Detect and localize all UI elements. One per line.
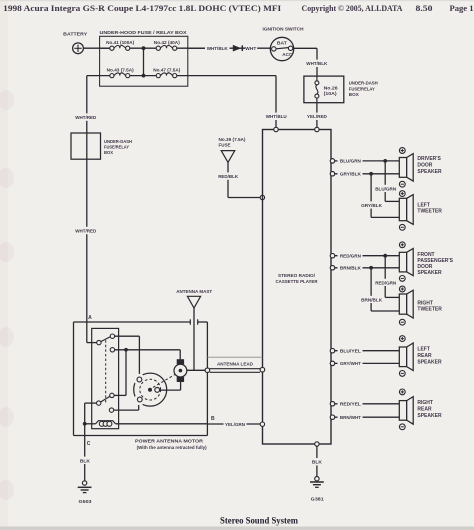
svg-text:SPEAKER: SPEAKER [417,413,442,419]
wire motor to antenna lead node [187,369,208,371]
svg-text:BAT: BAT [277,41,287,46]
wire battery to under-hood fuse box [83,47,109,49]
svg-text:TWEETER: TWEETER [417,209,442,215]
wire motor lower brush to cam wiper [160,382,181,390]
svg-text:DOOR: DOOR [417,163,432,169]
svg-text:1998 Acura Integra GS-R Coupe: 1998 Acura Integra GS-R Coupe L4-1797cc … [3,3,282,13]
svg-text:IGNITION SWITCH: IGNITION SWITCH [263,27,305,32]
svg-text:RED/GRN: RED/GRN [340,254,362,260]
battery [63,32,88,54]
svg-text:ANTENNA MAST: ANTENNA MAST [176,289,212,294]
svg-text:ANTENNA LEAD: ANTENNA LEAD [217,362,254,367]
wire WHT/RED left column [75,76,98,322]
svg-text:BLK: BLK [80,458,91,463]
speaker front passenger's door speaker: cone [399,249,413,276]
svg-text:GRY/BLK: GRY/BLK [340,172,362,178]
svg-text:A: A [88,315,92,321]
svg-text:REAR: REAR [417,407,432,413]
svg-text:FUSE/RELAY: FUSE/RELAY [104,144,129,149]
svg-text:Page 1: Page 1 [450,3,474,13]
svg-text:No.39 (7.5A): No.39 (7.5A) [219,137,246,142]
svg-text:WHT: WHT [245,46,256,51]
svg-text:DOOR: DOOR [417,264,432,270]
relay top switch [97,334,115,352]
svg-text:STEREO RADIO/: STEREO RADIO/ [278,273,316,278]
svg-text:GRY/WHT: GRY/WHT [340,361,361,367]
wire BLU/YEL rear left + [330,347,399,355]
speaker left rear speaker: + terminal [399,336,405,342]
speaker left tweeter: cone [399,195,413,225]
stereo radio/cassette player U1 [263,130,332,445]
fuse No.47 (7.5A) [153,68,180,78]
svg-text:BRN/WHT: BRN/WHT [340,415,361,421]
node C [87,441,91,447]
speaker right tweeter: cone [399,290,413,318]
svg-text:REAR: REAR [417,353,432,359]
node B [211,416,215,422]
speaker right rear speaker: name label [417,400,442,419]
speaker right tweeter: + terminal [399,286,405,292]
fuse No.43 (7.5A) [107,68,134,78]
svg-text:FRONT: FRONT [417,252,434,258]
svg-text:BRN/BLK: BRN/BLK [340,266,362,272]
power antenna motor box [74,319,208,435]
svg-text:SPEAKER: SPEAKER [417,359,442,365]
antenna lead [205,357,265,372]
wire YEL/RED to stereo [306,103,329,130]
svg-text:UNDER-DASH: UNDER-DASH [104,139,132,144]
under-dash fuse/relay box (No.26) [304,76,378,103]
wire BLU/GRN front left + [330,157,399,165]
svg-text:YEL/RED: YEL/RED [307,114,328,119]
speaker driver's door speaker: name label [417,156,442,175]
fuse No.39 (7.5A) [219,137,246,162]
branch wire BRN/BLK to right tweeter [361,268,400,311]
fuse No.41 (100A) [106,40,134,50]
branch wire BLU/GRN to left tweeter [375,161,400,202]
svg-text:(10A): (10A) [324,91,338,96]
wire bottom switch pivot to ground node [83,403,97,426]
speaker left rear speaker: name label [417,347,442,366]
wire WHT/BLK ignition switch to under-dash fuse box [293,48,328,76]
svg-text:PASSENGER'S: PASSENGER'S [417,258,453,264]
ignition switch [263,27,305,61]
wire fuse row 1 [100,47,206,49]
antenna motor M [174,359,187,382]
svg-text:BLU/GRN: BLU/GRN [340,159,362,165]
speaker driver's door speaker: cone [399,154,413,182]
svg-text:LEFT: LEFT [417,202,430,208]
power antenna motor label [135,438,207,449]
svg-text:WHT/BLK: WHT/BLK [306,61,328,66]
header title text [3,3,473,13]
speaker right tweeter: name label [417,300,442,312]
speaker front passenger's door speaker: - terminal [399,276,405,282]
svg-text:G503: G503 [79,499,92,504]
speaker driver's door speaker: - terminal [399,181,405,187]
svg-text:GRY/BLK: GRY/BLK [361,203,383,209]
svg-text:ACC: ACC [282,52,293,57]
wire RED/YEL rear right + [330,400,399,408]
speaker front passenger's door speaker: name label [417,252,453,276]
stereo top connectors [274,127,319,131]
svg-text:No.43 (7.5A): No.43 (7.5A) [107,68,134,73]
ground G381 [310,477,324,502]
svg-text:CASSETTE PLAYER: CASSETTE PLAYER [276,279,319,284]
svg-text:WHT/RED: WHT/RED [75,115,97,120]
relay bottom switch [97,393,115,412]
svg-text:Copyright © 2005, ALLDATA: Copyright © 2005, ALLDATA [302,3,404,13]
svg-text:BATTERY: BATTERY [63,32,88,37]
ground G503 [78,481,92,504]
svg-text:YEL/GRN: YEL/GRN [225,422,246,427]
svg-text:WHT/BLU: WHT/BLU [266,114,288,119]
wire RED/BLK to stereo [217,162,265,199]
svg-text:WHT/BLK: WHT/BLK [207,46,229,51]
svg-text:DRIVER'S: DRIVER'S [417,156,441,162]
wire top switch upper contact to cam upper contact [115,336,140,377]
svg-text:WHT/RED: WHT/RED [75,228,97,233]
antenna mast [176,289,212,371]
speaker left tweeter: - terminal [399,224,405,230]
svg-text:BOX: BOX [104,150,113,155]
wire BRN/BLK front right - [330,264,399,272]
wire top switch lower contact to motor [115,348,181,360]
svg-text:No.26: No.26 [324,85,339,90]
svg-text:C: C [87,441,91,447]
wire RED/GRN front right + [330,252,399,260]
svg-text:(With the antenna retracted fu: (With the antenna retracted fully) [137,445,208,450]
svg-text:BLU/YEL: BLU/YEL [340,349,361,355]
svg-text:UNDER-HOOD FUSE / RELAY BOX: UNDER-HOOD FUSE / RELAY BOX [100,30,188,35]
speaker front passenger's door speaker: + terminal [399,242,405,248]
cam disc [134,373,176,406]
svg-text:BLK: BLK [312,460,323,465]
svg-text:SPEAKER: SPEAKER [417,270,442,276]
svg-text:FUSE/RELAY: FUSE/RELAY [349,86,375,91]
svg-text:8.50: 8.50 [416,3,434,13]
speaker left tweeter: name label [417,202,442,214]
svg-text:BRN/BLK: BRN/BLK [361,298,383,304]
wire junction to bottom switch upper contact [114,350,126,396]
svg-text:RIGHT: RIGHT [417,300,433,306]
svg-text:RIGHT: RIGHT [417,400,433,406]
under-hood fuse/relay box [100,30,188,86]
wire bottom switch lower contact to cam lower contact [114,402,139,411]
speaker left tweeter: + terminal [399,191,405,197]
wire BLK to ground G503 [78,424,93,481]
branch wire GRY/BLK to left tweeter [361,174,400,218]
svg-text:FUSE: FUSE [219,143,231,148]
node A [88,315,92,321]
wire WHT/BLU to stereo [265,76,289,130]
relay switch link (dashed) [105,340,107,404]
svg-text:G381: G381 [311,496,324,501]
svg-text:No.42 (40A): No.42 (40A) [154,40,180,45]
svg-text:No.47 (7.5A): No.47 (7.5A) [153,68,180,73]
svg-text:BLU/GRN: BLU/GRN [375,187,397,193]
stereo right edge connectors [330,159,334,420]
relay coil [85,421,208,427]
wire BLK to ground G381 [310,442,325,477]
speaker right tweeter: - terminal [399,319,405,325]
svg-text:LEFT: LEFT [417,347,430,353]
wire YEL/GRN [207,420,264,427]
fuse No.42 (40A) [154,40,180,50]
svg-text:Stereo Sound System: Stereo Sound System [220,516,298,526]
under-dash fuse/relay box (left pass-through) [71,133,132,159]
speaker left rear speaker: - terminal [399,371,405,377]
svg-text:No.41 (100A): No.41 (100A) [106,40,134,45]
fuse No.26 (10A) [315,76,338,103]
footer text [220,516,298,526]
antenna relay box [92,328,119,428]
junction wire between fuse rows [142,46,146,77]
wire GRY/WHT rear left - [330,359,399,367]
speaker driver's door speaker: + terminal [399,148,405,154]
branch wire RED/GRN to right tweeter [375,256,400,298]
svg-text:BOX: BOX [349,92,359,97]
svg-text:UNDER-DASH: UNDER-DASH [349,81,378,86]
svg-text:RED/GRN: RED/GRN [375,281,397,287]
speaker right rear speaker: + terminal [399,389,405,395]
wire WHT/RED to relay top switch [87,322,97,343]
svg-text:POWER ANTENNA MOTOR: POWER ANTENNA MOTOR [135,438,204,443]
svg-text:B: B [211,416,215,422]
wire fuse row 2 [87,75,276,77]
speaker right rear speaker: cone [399,397,413,425]
svg-text:TWEETER: TWEETER [417,307,442,313]
svg-text:RED/BLK: RED/BLK [218,174,239,179]
wire WHT/BLK to ignition switch with in-line connector [188,44,272,52]
wire BRN/WHT rear right - [330,413,399,421]
svg-text:RED/YEL: RED/YEL [340,402,361,408]
speaker left rear speaker: cone [399,343,413,371]
wire GRY/BLK front left - [330,170,399,178]
speaker right rear speaker: - terminal [399,424,405,430]
svg-text:SPEAKER: SPEAKER [417,169,442,175]
